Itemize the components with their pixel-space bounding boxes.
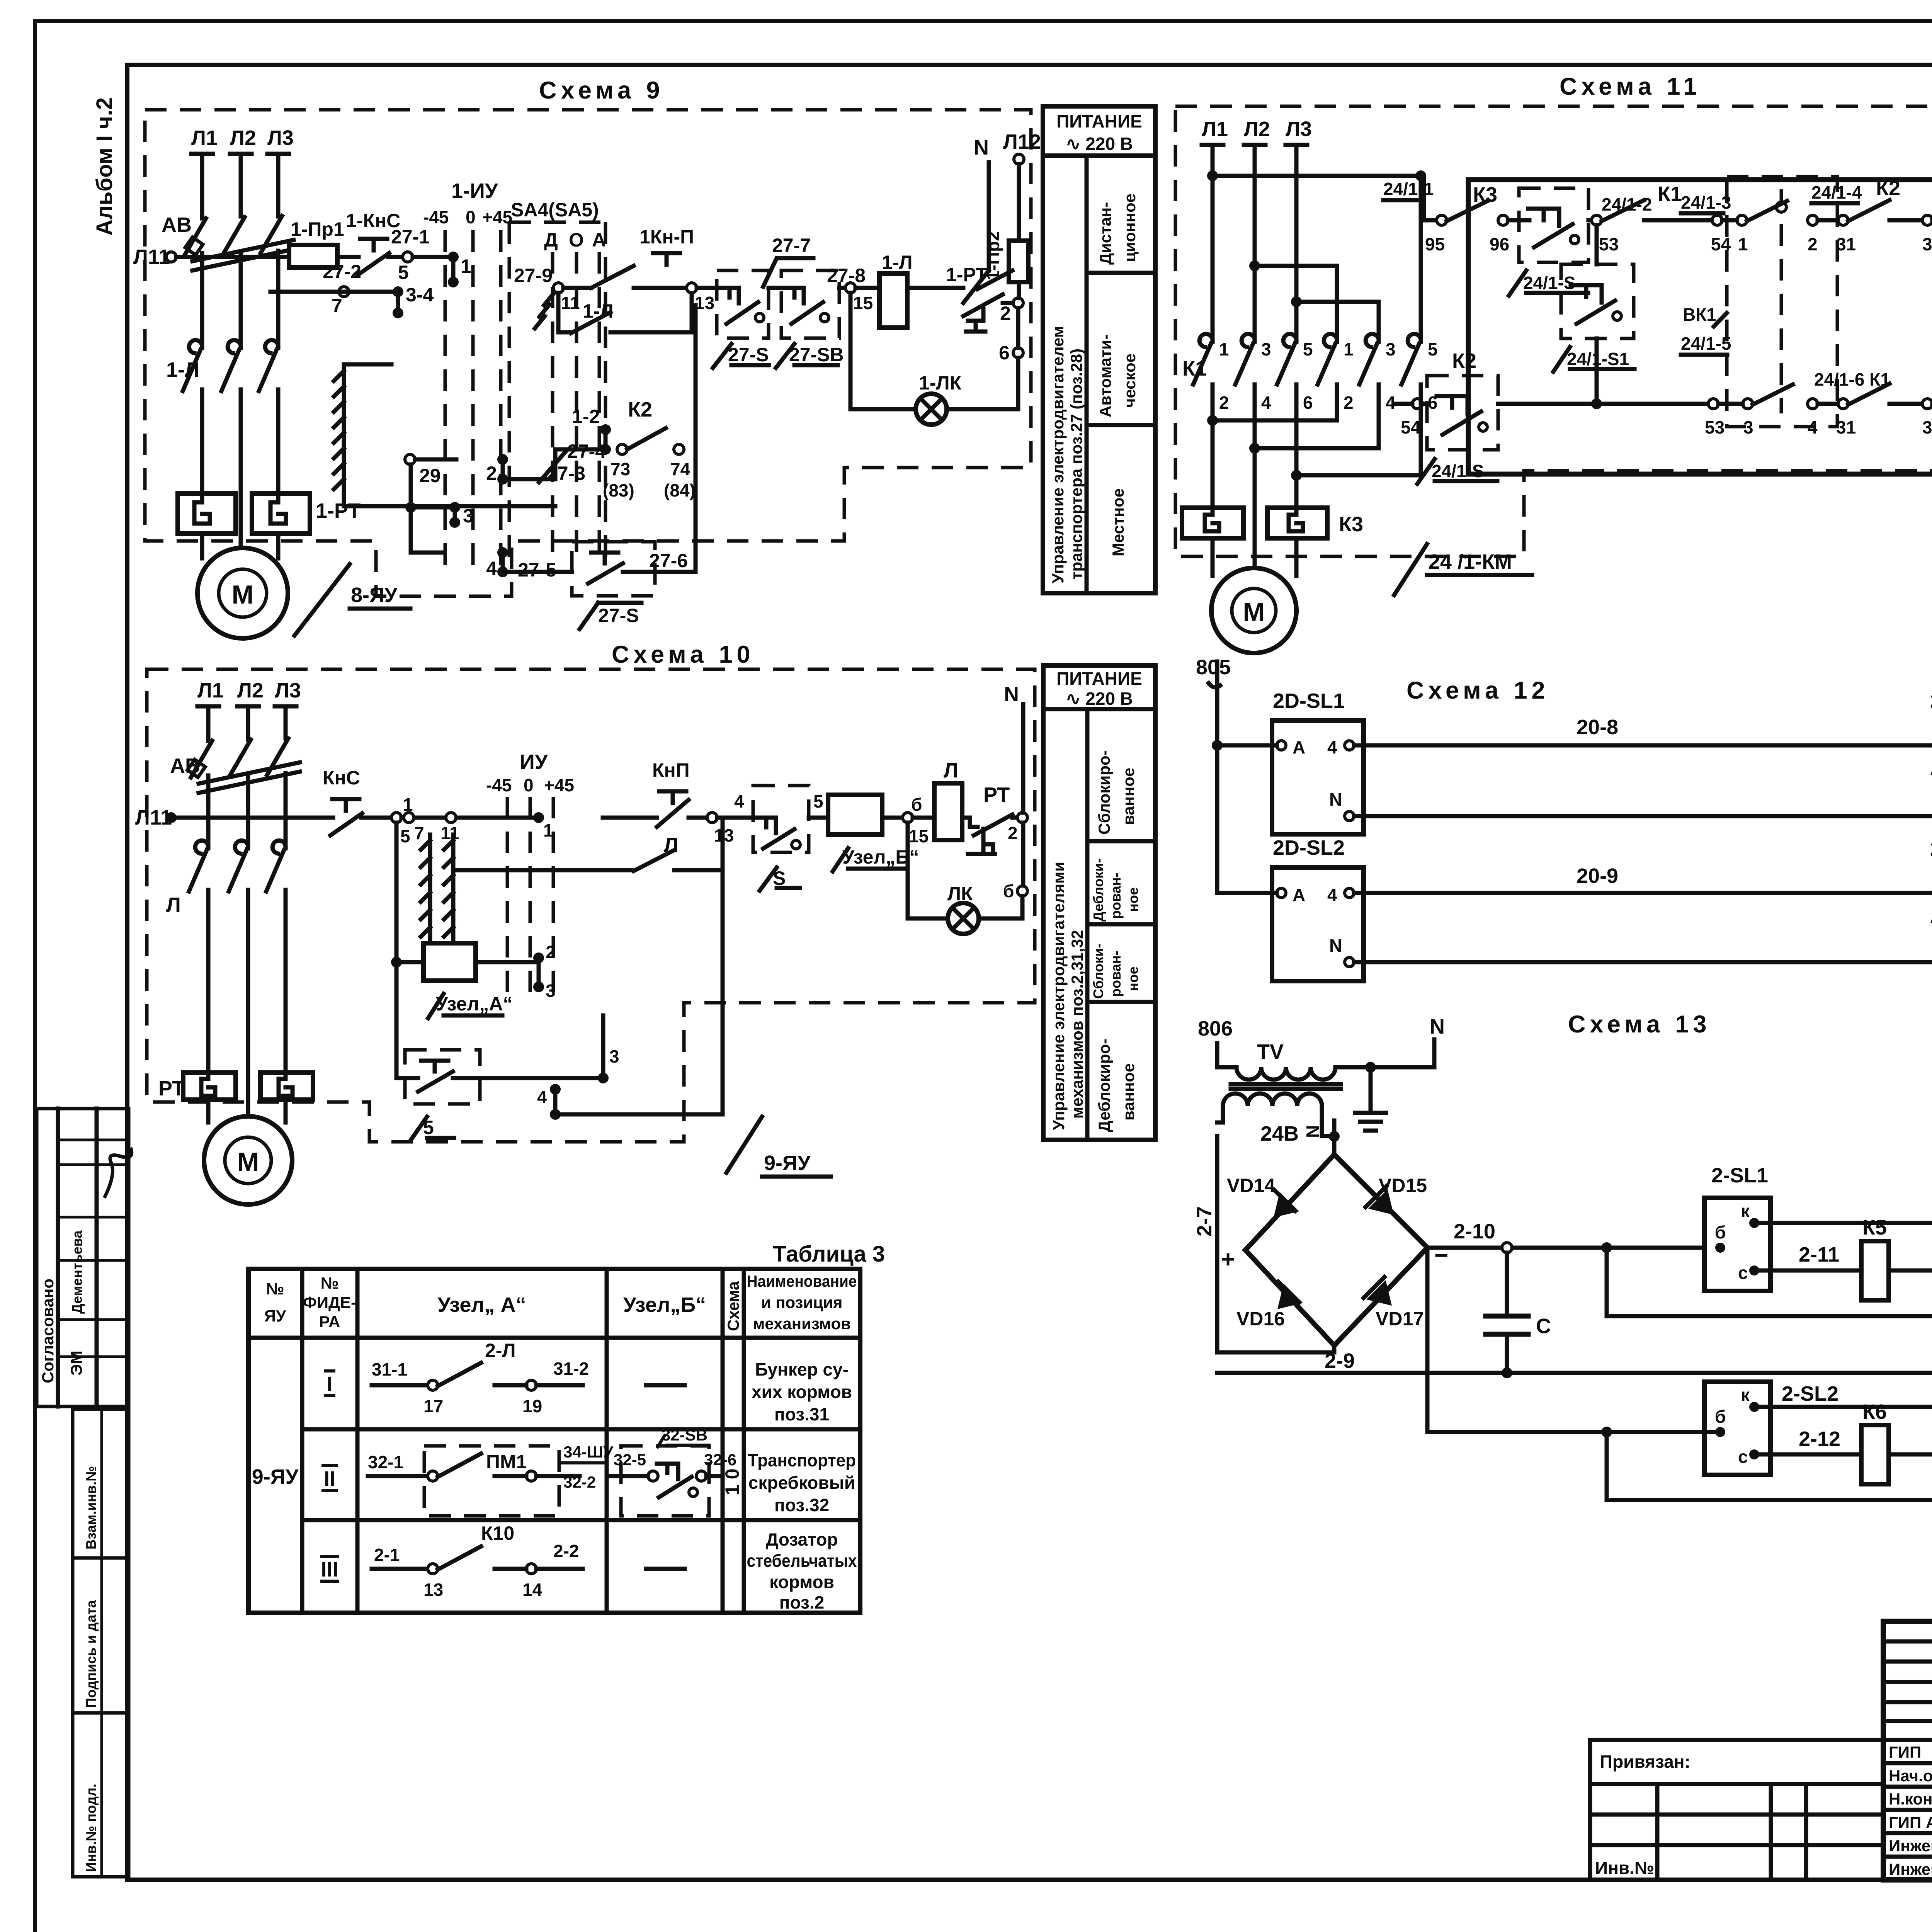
svg-text:VD17: VD17	[1376, 1308, 1424, 1330]
svg-text:скребковый: скребковый	[748, 1473, 855, 1493]
row I uzel B dash	[646, 1383, 685, 1388]
svg-text:стебельчатых: стебельчатых	[747, 1551, 857, 1571]
label 9-YaU	[726, 1117, 762, 1173]
svg-text:М: М	[1243, 597, 1265, 627]
K wire to bus	[1754, 1221, 1932, 1225]
svg-text:27-1: 27-1	[391, 226, 430, 248]
svg-text:27-SB: 27-SB	[789, 344, 844, 366]
svg-text:13: 13	[423, 1580, 443, 1600]
wire L11 to fuse	[176, 255, 289, 259]
label 24/1-KM	[1394, 544, 1427, 595]
node 1/5	[391, 813, 401, 823]
svg-text:Сблоки-: Сблоки-	[1090, 944, 1106, 999]
svg-text:15: 15	[853, 293, 873, 313]
wire 20-9	[1354, 891, 1932, 895]
svg-text:Узел„ А“: Узел„ А“	[437, 1293, 526, 1316]
svg-text:2-7: 2-7	[1193, 1206, 1216, 1236]
svg-text:73: 73	[611, 459, 630, 479]
travel switch 24/1-S lower	[1427, 376, 1498, 450]
svg-text:III: III	[321, 1558, 338, 1581]
svg-text:96: 96	[1490, 234, 1509, 254]
capacitor C	[1505, 1253, 1509, 1316]
svg-text:1Кн-П: 1Кн-П	[639, 226, 694, 248]
leader 1-RT	[978, 270, 1012, 289]
door switch 5	[405, 1050, 480, 1104]
svg-text:2: 2	[1219, 393, 1229, 413]
svg-text:ное: ное	[1125, 966, 1141, 991]
svg-text:N: N	[1430, 1015, 1445, 1038]
svg-text:РТ: РТ	[983, 783, 1010, 806]
stamp cells lower	[73, 1409, 129, 1877]
svg-text:27-9: 27-9	[514, 265, 553, 286]
svg-text:27-7: 27-7	[772, 235, 811, 256]
svg-text:VD16: VD16	[1236, 1308, 1285, 1330]
svg-text:2-10: 2-10	[1454, 1220, 1495, 1243]
svg-text:5: 5	[400, 826, 410, 846]
inner solid box	[1468, 180, 1932, 474]
svg-text:4: 4	[1261, 393, 1271, 413]
uzel B box	[828, 795, 882, 835]
motor M 8-YaU	[197, 548, 288, 638]
svg-text:с: с	[1738, 1447, 1748, 1467]
svg-text:Инв.№: Инв.№	[1595, 1858, 1654, 1878]
svg-text:∿ 220 В: ∿ 220 В	[1066, 689, 1133, 709]
svg-text:24/1-2: 24/1-2	[1602, 194, 1652, 214]
svg-text:VD14: VD14	[1227, 1175, 1275, 1196]
svg-text:17: 17	[423, 1396, 443, 1416]
svg-text:32-1: 32-1	[368, 1452, 403, 1472]
svg-text:2: 2	[1000, 303, 1011, 324]
SL1 N return	[1354, 814, 1932, 818]
svg-text:А: А	[1293, 737, 1305, 757]
top control bus from L1	[1207, 170, 1218, 181]
svg-text:29: 29	[419, 465, 441, 486]
main title block frame	[1883, 1621, 1932, 1880]
svg-text:О: О	[569, 229, 584, 251]
schema 11 dashed boundary	[1175, 106, 1932, 556]
svg-text:транспортера поз.27 (поз.28): транспортера поз.27 (поз.28)	[1067, 349, 1085, 580]
svg-text:2-2: 2-2	[553, 1541, 579, 1561]
svg-text:34-ШУ: 34-ШУ	[563, 1443, 614, 1461]
svg-text:5: 5	[1428, 339, 1438, 359]
svg-text:2-SL1: 2-SL1	[1711, 1164, 1768, 1187]
svg-text:Д: Д	[544, 229, 558, 251]
svg-text:2-1: 2-1	[374, 1545, 400, 1565]
svg-text:32: 32	[1922, 234, 1932, 254]
svg-text:54: 54	[1401, 417, 1421, 437]
svg-text:Альбом I ч.2: Альбом I ч.2	[92, 97, 117, 236]
svg-text:2D-SL1: 2D-SL1	[1273, 689, 1345, 713]
svg-text:SA4(SA5): SA4(SA5)	[511, 199, 599, 221]
svg-text:Л2: Л2	[1244, 117, 1270, 141]
row III uzel B dash	[646, 1567, 685, 1571]
stamp block soglasovano	[37, 1109, 132, 1406]
svg-text:24/1-1: 24/1-1	[1383, 179, 1434, 199]
svg-text:механизмов: механизмов	[753, 1315, 851, 1333]
svg-text:1-Пр2: 1-Пр2	[983, 231, 1003, 281]
svg-text:А: А	[1930, 759, 1932, 779]
svg-text:1-2: 1-2	[572, 406, 600, 427]
svg-text:95: 95	[1425, 234, 1445, 254]
schema 9 dashed boundary	[145, 110, 1031, 596]
svg-text:Схема 13: Схема 13	[1568, 1011, 1711, 1038]
svg-text:I: I	[327, 1372, 332, 1396]
svg-text:N: N	[1329, 789, 1342, 810]
svg-text:б: б	[1003, 881, 1014, 901]
svg-text:1-РТ: 1-РТ	[316, 499, 361, 522]
svg-text:1: 1	[461, 255, 471, 277]
svg-text:ФИДЕ-: ФИДЕ-	[303, 1293, 356, 1311]
svg-text:2-SL2: 2-SL2	[1782, 1382, 1838, 1405]
svg-text:N: N	[1303, 1125, 1323, 1138]
svg-text:806: 806	[1198, 1017, 1233, 1040]
node 2	[1013, 298, 1023, 308]
svg-text:К3: К3	[1339, 513, 1363, 536]
svg-text:1-ЛК: 1-ЛК	[919, 372, 962, 394]
svg-text:Местное: Местное	[1109, 488, 1127, 556]
svg-text:2-12: 2-12	[1799, 1427, 1840, 1451]
hatched bars	[421, 835, 453, 943]
svg-text:54: 54	[1711, 234, 1731, 254]
svg-text:7: 7	[332, 295, 342, 316]
thermal relay 1-RT heaters	[178, 493, 236, 534]
svg-text:-45: -45	[486, 775, 512, 795]
svg-text:Взам.инв.№: Взам.инв.№	[83, 1466, 99, 1549]
svg-text:рован-: рован-	[1108, 873, 1124, 919]
svg-text:15: 15	[909, 826, 929, 846]
svg-text:поз.32: поз.32	[774, 1495, 829, 1515]
svg-text:Л: Л	[166, 893, 181, 917]
svg-text:2-9: 2-9	[1325, 1349, 1355, 1372]
name rows	[1883, 1738, 1932, 1742]
node 2	[1017, 813, 1027, 823]
svg-text:1 0: 1 0	[721, 1468, 743, 1495]
svg-text:К2: К2	[628, 398, 652, 421]
switch 24/1-S1 mid	[1561, 264, 1634, 338]
svg-text:31: 31	[1836, 417, 1856, 437]
svg-text:поз.2: поз.2	[779, 1592, 825, 1612]
svg-text:1: 1	[1344, 339, 1354, 359]
K2 trio feeders	[1249, 260, 1260, 271]
svg-text:М: М	[232, 580, 254, 609]
svg-text:Управление электродвигателями: Управление электродвигателями	[1049, 862, 1068, 1130]
node 13	[687, 283, 697, 293]
svg-text:9-ЯУ: 9-ЯУ	[764, 1151, 811, 1175]
svg-text:Дементьева: Дементьева	[69, 1230, 85, 1314]
svg-text:С: С	[1536, 1315, 1551, 1338]
svg-text:Инв.№ подл.: Инв.№ подл.	[83, 1784, 99, 1872]
svg-text:б: б	[911, 794, 922, 815]
node 6	[1013, 348, 1023, 358]
svg-text:б: б	[1715, 1406, 1726, 1427]
svg-text:2: 2	[546, 942, 556, 962]
svg-text:1: 1	[1738, 234, 1748, 254]
svg-text:Схема 10: Схема 10	[612, 641, 755, 668]
svg-text:Л: Л	[944, 759, 958, 782]
svg-text:с: с	[1738, 1263, 1748, 1283]
svg-text:∿ 220 В: ∿ 220 В	[1066, 134, 1133, 154]
svg-text:Схема 9: Схема 9	[539, 77, 664, 104]
svg-text:Л1: Л1	[197, 679, 224, 702]
svg-text:24 /1-КМ: 24 /1-КМ	[1429, 550, 1512, 573]
svg-text:Управление электродвигателем: Управление электродвигателем	[1049, 326, 1067, 583]
svg-text:11: 11	[440, 823, 459, 843]
svg-text:4: 4	[1327, 737, 1337, 757]
svg-text:АВ: АВ	[162, 213, 192, 236]
svg-text:7: 7	[414, 823, 424, 843]
svg-text:3: 3	[1743, 417, 1753, 437]
svg-text:к: к	[1741, 1201, 1750, 1221]
svg-text:Инженер: Инженер	[1889, 1837, 1932, 1855]
svg-text:Схема: Схема	[724, 1281, 742, 1331]
svg-text:б: б	[1715, 1222, 1726, 1242]
travel switch 24/1-S top	[1519, 188, 1588, 262]
svg-text:N: N	[974, 136, 989, 159]
svg-text:11: 11	[561, 293, 580, 313]
svg-text:32: 32	[1922, 417, 1932, 437]
svg-text:Бункер су-: Бункер су-	[755, 1359, 849, 1379]
schema 9 side caption	[1043, 106, 1155, 593]
svg-text:Л11: Л11	[133, 245, 170, 269]
svg-text:Таблица 3: Таблица 3	[773, 1242, 885, 1267]
svg-text:5: 5	[398, 262, 409, 283]
svg-text:К1: К1	[1658, 182, 1682, 206]
svg-text:27-S: 27-S	[598, 605, 639, 626]
svg-text:3: 3	[546, 981, 556, 1001]
limit switch box 27-S	[717, 270, 769, 338]
svg-text:Деблоки-: Деблоки-	[1090, 859, 1106, 922]
svg-text:27-6: 27-6	[649, 550, 688, 571]
svg-text:+: +	[1221, 1246, 1235, 1273]
svg-text:(84): (84)	[664, 480, 696, 500]
VK1 dashed box	[1727, 177, 1837, 427]
svg-text:4: 4	[537, 1087, 547, 1107]
svg-text:32-2: 32-2	[563, 1473, 596, 1491]
svg-text:2: 2	[1808, 234, 1818, 254]
svg-text:13: 13	[695, 293, 714, 313]
svg-text:Л1: Л1	[191, 126, 218, 150]
svg-text:II: II	[324, 1467, 335, 1490]
node b lower	[1017, 886, 1027, 896]
svg-text:6: 6	[1303, 393, 1313, 413]
svg-text:К2: К2	[1452, 349, 1476, 372]
svg-text:Схема 12: Схема 12	[1406, 677, 1549, 704]
svg-text:ческое: ческое	[1121, 354, 1139, 408]
node 13	[707, 813, 717, 823]
svg-text:32-SB: 32-SB	[662, 1426, 707, 1444]
svg-text:рован-: рован-	[1108, 951, 1124, 997]
svg-text:24/1-S: 24/1-S	[1523, 273, 1576, 293]
svg-text:Н.контр.: Н.контр.	[1889, 1790, 1932, 1808]
svg-text:5: 5	[1303, 339, 1313, 359]
svg-text:ПМ1: ПМ1	[486, 1451, 527, 1473]
svg-text:к: к	[1741, 1385, 1750, 1405]
schema 10 side caption	[1043, 665, 1155, 1140]
svg-text:+45: +45	[544, 775, 574, 795]
svg-text:ванное: ванное	[1119, 1063, 1138, 1121]
svg-text:(83): (83)	[603, 480, 634, 500]
svg-text:Наименование: Наименование	[747, 1272, 857, 1290]
svg-text:0: 0	[466, 207, 476, 227]
svg-text:Подпись и дата: Подпись и дата	[83, 1600, 99, 1708]
small top rows	[1883, 1639, 1932, 1644]
svg-text:ГИП: ГИП	[1889, 1743, 1921, 1761]
svg-text:М: М	[237, 1147, 259, 1177]
svg-text:24В: 24В	[1260, 1122, 1299, 1145]
table grid	[248, 1269, 860, 1613]
svg-text:2: 2	[486, 463, 497, 484]
S limit switch box	[753, 786, 809, 852]
svg-text:3: 3	[463, 505, 474, 527]
node 1 junction	[448, 252, 459, 262]
svg-text:2D-SL2: 2D-SL2	[1273, 836, 1345, 859]
svg-text:ное: ное	[1125, 887, 1141, 912]
svg-text:8-ЯУ: 8-ЯУ	[351, 583, 398, 607]
svg-text:31: 31	[1836, 234, 1856, 254]
row1 nodes in VK1	[1712, 215, 1722, 225]
svg-text:Согласовано: Согласовано	[39, 1279, 57, 1383]
svg-text:1-Л: 1-Л	[882, 252, 913, 273]
svg-text:805: 805	[1196, 656, 1231, 679]
schema 10 dashed boundary	[147, 669, 1035, 1142]
svg-text:2: 2	[1344, 393, 1354, 413]
svg-text:TV: TV	[1257, 1040, 1284, 1063]
svg-text:Сблокиро-: Сблокиро-	[1095, 750, 1113, 835]
svg-text:Л3: Л3	[267, 126, 294, 150]
uzel A branch	[395, 823, 399, 1078]
label 8-YaU	[294, 564, 350, 636]
row2 start node 54	[1412, 399, 1422, 409]
svg-text:Автомати-: Автомати-	[1096, 334, 1114, 417]
wire 20-8	[1354, 743, 1932, 748]
svg-text:Схема 11: Схема 11	[1560, 73, 1701, 100]
svg-text:ГИП А: ГИП А	[1889, 1813, 1932, 1832]
svg-text:1: 1	[1219, 339, 1229, 359]
svg-text:КнП: КнП	[652, 759, 690, 781]
svg-text:А: А	[1930, 906, 1932, 927]
svg-text:3: 3	[1261, 339, 1271, 359]
svg-text:ЯУ: ЯУ	[264, 1307, 286, 1325]
svg-text:53: 53	[1599, 234, 1619, 254]
svg-text:20-9: 20-9	[1577, 864, 1618, 888]
svg-text:31-1: 31-1	[372, 1359, 407, 1379]
svg-text:4: 4	[1386, 393, 1396, 413]
svg-text:74: 74	[670, 459, 690, 479]
svg-text:3-4: 3-4	[406, 284, 434, 306]
svg-text:3: 3	[1386, 339, 1396, 359]
SL2 N return	[1354, 960, 1932, 964]
coil boxes K1 K3	[1182, 508, 1243, 538]
svg-text:N: N	[1329, 935, 1342, 956]
svg-text:4: 4	[734, 791, 744, 811]
svg-text:4: 4	[486, 558, 497, 579]
svg-text:К5: К5	[1862, 1216, 1887, 1239]
svg-text:КнС: КнС	[323, 767, 360, 789]
svg-text:хих кормов: хих кормов	[752, 1382, 852, 1402]
svg-text:Л2: Л2	[237, 679, 264, 702]
svg-text:4: 4	[1327, 885, 1337, 905]
SL2 b feeder from bridge minus	[1427, 1248, 1720, 1432]
svg-text:24/1-4: 24/1-4	[1811, 182, 1862, 202]
svg-text:19: 19	[522, 1396, 542, 1416]
svg-text:-45: -45	[423, 207, 449, 227]
svg-text:N: N	[1004, 683, 1019, 706]
svg-text:ЭМ: ЭМ	[67, 1350, 85, 1376]
svg-text:№: №	[321, 1274, 339, 1292]
svg-text:0: 0	[524, 775, 534, 795]
K wire SL2	[1754, 1405, 1932, 1409]
ground symbol	[1355, 1111, 1386, 1115]
svg-text:2D-К1: 2D-К1	[1930, 689, 1932, 713]
svg-text:Нач.отд.: Нач.отд.	[1889, 1767, 1932, 1785]
svg-text:27-4: 27-4	[567, 440, 606, 462]
svg-text:14: 14	[522, 1580, 543, 1600]
svg-text:24/1-6 К1: 24/1-6 К1	[1814, 369, 1890, 389]
svg-text:31-2: 31-2	[553, 1359, 589, 1379]
svg-text:ПИТАНИЕ: ПИТАНИЕ	[1056, 111, 1142, 131]
svg-text:Л2: Л2	[230, 126, 256, 150]
svg-text:Привязан:: Привязан:	[1600, 1752, 1690, 1772]
svg-text:ционное: ционное	[1121, 194, 1139, 262]
svg-text:6: 6	[999, 342, 1010, 364]
svg-text:К6: К6	[1862, 1400, 1887, 1423]
row2 nodes	[1597, 402, 1708, 406]
svg-text:Дистан-: Дистан-	[1096, 202, 1114, 265]
svg-text:20-8: 20-8	[1577, 716, 1618, 739]
svg-text:24/1-S: 24/1-S	[1432, 461, 1484, 481]
node b/15	[903, 813, 913, 823]
svg-text:3: 3	[609, 1046, 619, 1066]
svg-text:24/1-3: 24/1-3	[1681, 192, 1731, 213]
privyazan block	[1590, 1740, 1883, 1880]
limit switch box 27-SB	[781, 270, 839, 338]
svg-text:Узел„А“: Узел„А“	[436, 993, 513, 1015]
svg-text:4: 4	[1808, 417, 1818, 437]
svg-text:2-11: 2-11	[1799, 1243, 1839, 1266]
svg-text:Инженер: Инженер	[1889, 1860, 1932, 1878]
svg-text:поз.31: поз.31	[774, 1404, 829, 1424]
svg-text:27-S: 27-S	[728, 344, 769, 366]
selector hatched bar	[334, 366, 344, 489]
svg-text:27-2: 27-2	[323, 261, 361, 282]
svg-text:Узел„Б“: Узел„Б“	[623, 1293, 706, 1316]
svg-text:2D-К2: 2D-К2	[1930, 837, 1932, 861]
svg-text:и позиция: и позиция	[761, 1293, 843, 1311]
svg-text:1-Пр1: 1-Пр1	[291, 218, 344, 240]
svg-text:Транспортер: Транспортер	[748, 1450, 856, 1470]
slashed nodes 7 and 11	[404, 813, 414, 823]
svg-text:24/1-5: 24/1-5	[1681, 333, 1731, 354]
svg-text:6: 6	[1428, 393, 1438, 413]
svg-text:5: 5	[813, 791, 823, 811]
svg-text:ВК1: ВК1	[1683, 304, 1716, 325]
svg-text:1-ИУ: 1-ИУ	[451, 179, 498, 202]
motor M 9-YaU	[204, 1116, 292, 1204]
svg-text:механизмов поз.2,31,32: механизмов поз.2,31,32	[1068, 930, 1086, 1119]
svg-text:Л1: Л1	[1202, 117, 1228, 141]
svg-text:А: А	[1293, 885, 1305, 905]
svg-text:2: 2	[1008, 823, 1018, 843]
svg-text:РА: РА	[319, 1313, 340, 1331]
svg-text:Л12: Л12	[1003, 130, 1041, 153]
top band line	[127, 63, 1932, 67]
svg-text:ИУ: ИУ	[520, 750, 548, 774]
svg-text:Дозатор: Дозатор	[766, 1529, 838, 1549]
svg-text:32-6: 32-6	[704, 1451, 736, 1469]
svg-text:А: А	[592, 229, 606, 251]
motor M	[1211, 538, 1215, 576]
svg-text:ПИТАНИЕ: ПИТАНИЕ	[1056, 668, 1142, 689]
